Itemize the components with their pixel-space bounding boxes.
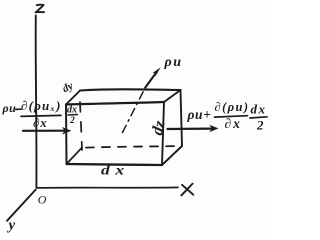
svg-text:O: O [38, 193, 47, 207]
svg-text:dx: dx [101, 163, 130, 178]
svg-text:∂x: ∂x [33, 115, 48, 130]
svg-text:∂x: ∂x [225, 116, 242, 131]
svg-text:2: 2 [256, 118, 264, 133]
svg-text:ρu: ρu [2, 101, 17, 115]
svg-text:2: 2 [69, 115, 75, 125]
svg-text:∂(ρu): ∂(ρu) [215, 100, 250, 114]
svg-text:ρu: ρu [164, 55, 183, 70]
svg-text:dx: dx [251, 102, 267, 117]
svg-text:∂(ρuₓ): ∂(ρuₓ) [21, 98, 62, 113]
svg-text:ρu+: ρu+ [187, 107, 212, 122]
svg-text:y: y [7, 218, 16, 234]
